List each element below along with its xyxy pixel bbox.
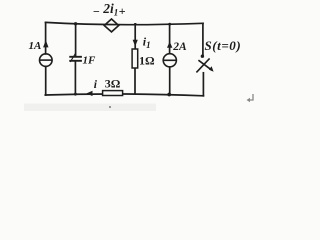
svg-text:3Ω: 3Ω — [105, 76, 121, 90]
svg-text:1Ω: 1Ω — [139, 53, 155, 67]
svg-text:2A: 2A — [172, 41, 187, 53]
svg-text:−: − — [93, 4, 100, 18]
svg-text:1A: 1A — [29, 40, 42, 52]
svg-text:S(t=0): S(t=0) — [205, 38, 242, 53]
svg-text:1F: 1F — [83, 55, 97, 67]
svg-text:+: + — [119, 4, 126, 18]
